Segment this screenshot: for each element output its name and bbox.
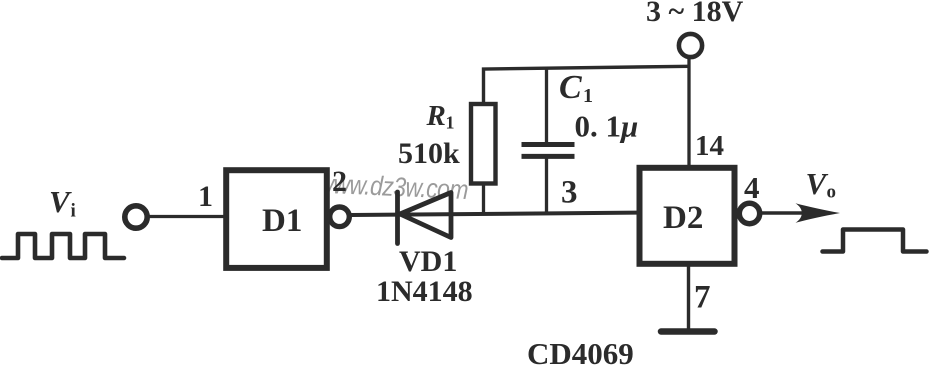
pin 7 wire xyxy=(687,264,690,330)
wire input to D1 xyxy=(148,215,226,218)
svg-text:V: V xyxy=(806,166,829,201)
resistor R1 body xyxy=(471,104,496,184)
capacitor C1 plates xyxy=(522,142,575,147)
output waveform xyxy=(823,230,927,252)
inverter D2 xyxy=(640,168,735,264)
supply terminal xyxy=(679,34,702,57)
svg-text:510k: 510k xyxy=(398,137,460,170)
capacitor C1 bottom lead xyxy=(545,159,548,215)
output arrowhead xyxy=(796,203,841,223)
input terminal xyxy=(125,206,147,228)
svg-text:i: i xyxy=(71,201,76,222)
svg-text:VD1: VD1 xyxy=(399,245,457,278)
svg-text:2: 2 xyxy=(332,165,347,198)
svg-text:D1: D1 xyxy=(262,203,302,239)
diode VD1 cathode bar xyxy=(395,192,400,244)
resistor R1 leads xyxy=(482,183,485,214)
watermark www.dz3w.com xyxy=(317,169,469,206)
svg-text:CD4069: CD4069 xyxy=(527,336,634,366)
output arrow wire xyxy=(760,211,825,215)
top wire to supply xyxy=(484,66,690,103)
svg-text:1: 1 xyxy=(583,85,593,107)
inverter D1 xyxy=(226,170,327,268)
ground xyxy=(661,328,715,335)
svg-text:4: 4 xyxy=(744,170,760,205)
capacitor C1 top lead xyxy=(545,68,548,144)
svg-text:R: R xyxy=(426,100,446,132)
svg-text:o: o xyxy=(827,182,837,203)
svg-text:1N4148: 1N4148 xyxy=(376,275,473,308)
svg-text:3: 3 xyxy=(561,175,578,211)
input waveform xyxy=(2,234,124,258)
svg-text:1: 1 xyxy=(446,113,455,133)
D2 output bubble xyxy=(739,203,759,223)
svg-text:1: 1 xyxy=(198,180,213,213)
diode VD1 triangle xyxy=(400,193,451,238)
svg-text:C: C xyxy=(559,69,582,106)
svg-text:0. 1μ: 0. 1μ xyxy=(575,109,639,144)
D1 output bubble xyxy=(330,207,350,227)
supply wire down to D2 xyxy=(687,57,690,167)
svg-text:3 ~ 18V: 3 ~ 18V xyxy=(646,0,744,28)
wire D1 to D2 (main node wire) xyxy=(351,213,641,215)
svg-text:D2: D2 xyxy=(663,200,703,236)
svg-text:14: 14 xyxy=(695,130,724,162)
svg-text:7: 7 xyxy=(694,280,711,316)
svg-text:V: V xyxy=(49,184,72,219)
